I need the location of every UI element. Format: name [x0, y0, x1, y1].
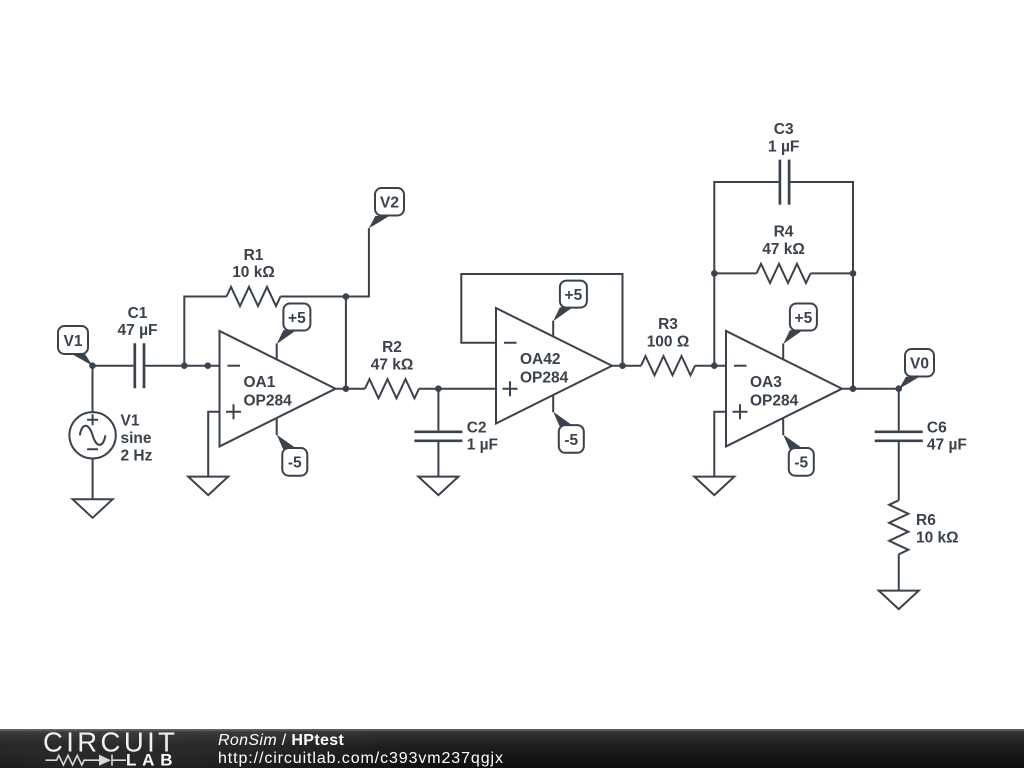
svg-text:C6: C6: [927, 419, 947, 436]
svg-text:+5: +5: [565, 287, 583, 304]
svg-text:LAB: LAB: [126, 750, 178, 768]
svg-text:47 kΩ: 47 kΩ: [371, 356, 414, 373]
svg-text:R3: R3: [658, 316, 678, 333]
svg-text:V0: V0: [910, 356, 929, 373]
svg-text:OA3: OA3: [750, 374, 782, 391]
svg-text:R4: R4: [774, 224, 794, 241]
svg-text:C1: C1: [128, 305, 148, 322]
svg-text:R1: R1: [244, 247, 264, 264]
svg-text:47 kΩ: 47 kΩ: [762, 241, 805, 258]
svg-text:-5: -5: [794, 455, 808, 472]
svg-text:C2: C2: [467, 419, 487, 436]
svg-text:RonSim / HPtest: RonSim / HPtest: [218, 732, 345, 749]
svg-text:47 µF: 47 µF: [118, 322, 158, 339]
svg-text:sine: sine: [121, 430, 152, 447]
svg-text:OA42: OA42: [520, 351, 561, 368]
svg-text:OP284: OP284: [244, 393, 293, 410]
svg-text:100 Ω: 100 Ω: [647, 333, 690, 350]
svg-text:R2: R2: [382, 339, 402, 356]
svg-text:2 Hz: 2 Hz: [121, 447, 153, 464]
svg-text:R6: R6: [916, 512, 936, 529]
svg-text:OA1: OA1: [244, 374, 276, 391]
svg-text:1 µF: 1 µF: [467, 437, 498, 454]
svg-text:47 µF: 47 µF: [927, 437, 967, 454]
svg-text:V2: V2: [380, 195, 399, 212]
svg-text:C3: C3: [774, 121, 794, 138]
svg-text:OP284: OP284: [520, 370, 569, 387]
svg-text:V1: V1: [64, 333, 83, 350]
svg-text:+5: +5: [795, 310, 813, 327]
svg-text:-5: -5: [288, 455, 302, 472]
svg-text:1 µF: 1 µF: [768, 138, 799, 155]
svg-text:http://circuitlab.com/c393vm23: http://circuitlab.com/c393vm237qgjx: [218, 750, 504, 767]
svg-text:OP284: OP284: [750, 393, 799, 410]
svg-text:V1: V1: [121, 413, 140, 430]
svg-text:+5: +5: [288, 310, 306, 327]
svg-text:10 kΩ: 10 kΩ: [232, 264, 275, 281]
svg-text:10 kΩ: 10 kΩ: [916, 529, 959, 546]
svg-text:-5: -5: [564, 432, 578, 449]
